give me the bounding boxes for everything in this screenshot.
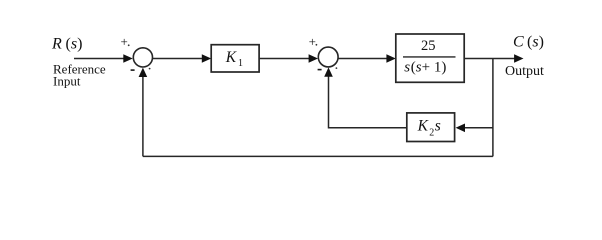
summing junction S1 [133, 48, 152, 67]
block G1: 25 / s(s+1) [396, 34, 464, 82]
svg-text:s: s [435, 118, 441, 135]
svg-text:C: C [513, 34, 524, 51]
wire W9: outer feedback bottom line [143, 155, 493, 157]
svg-text:s: s [404, 60, 410, 76]
block K2: K2*s [407, 113, 455, 142]
svg-text:Input: Input [53, 74, 81, 89]
svg-text:(s): (s) [66, 36, 83, 53]
svg-text:R: R [51, 36, 62, 53]
wire W2: S1 to block K1 [153, 54, 212, 63]
wire W1: input R(s) to summing junction S1 [74, 54, 133, 63]
svg-text:(s): (s) [527, 34, 544, 51]
wire W10: outer feedback up into S1 (arrow up) [139, 68, 148, 157]
svg-text:+: + [309, 34, 316, 49]
label Reference Input [53, 62, 106, 89]
block K1 [211, 45, 259, 72]
dot artifact right of plus at S2 [316, 44, 318, 46]
wire W5: G1 to output C(s) [464, 54, 523, 63]
summing junction S2 [318, 47, 338, 67]
minus sign at S1 [131, 69, 135, 71]
svg-text:(s+ 1): (s+ 1) [411, 60, 447, 76]
wire W6: vertical takeoff line down from output line [492, 59, 494, 157]
svg-text:+: + [121, 34, 128, 49]
minus sign at S2 [318, 69, 322, 71]
svg-text:1: 1 [238, 58, 243, 69]
svg-text:K: K [225, 49, 237, 66]
wire W7: branch into K2 block (arrow pointing left) [456, 124, 493, 133]
dot artifact right of S2 [336, 67, 338, 69]
wire W3: K1 to summing junction S2 [259, 54, 318, 63]
svg-text:K: K [417, 118, 429, 135]
svg-text:25: 25 [421, 38, 436, 54]
dot artifact right of plus at S1 [128, 44, 130, 46]
dot artifact right of S1 [149, 68, 151, 70]
svg-text:Output: Output [505, 64, 544, 79]
wire W8: K2 output left then up into S2 (arrow up) [324, 67, 407, 127]
svg-text:2: 2 [429, 127, 434, 138]
wire W4: S2 to block G1 [338, 54, 396, 63]
